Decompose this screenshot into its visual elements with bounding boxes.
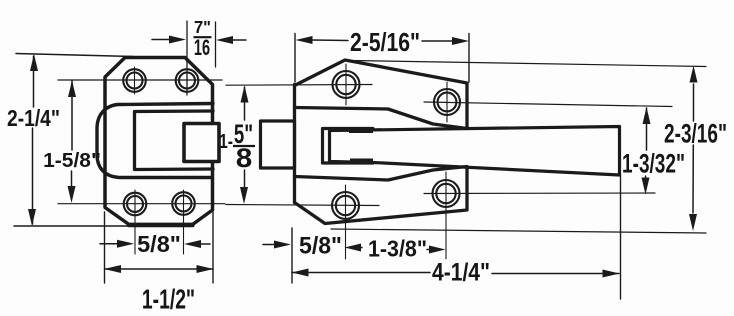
left body extension line (291, 228, 293, 283)
slot shadow bottom (350, 159, 373, 165)
dim 2-3/16 extension bottom (331, 229, 706, 233)
dim 2-1/4 extension bottom (14, 225, 127, 227)
dim 7/16 arrows (152, 36, 246, 45)
dim 1-5/8 line+arrows (68, 81, 77, 204)
dim 1-1/2 line+arrows (104, 265, 214, 273)
top flange (295, 60, 468, 129)
hole R-BL (332, 185, 359, 259)
dim 2-1/4 extension top (16, 54, 133, 57)
dim 2-3/16 extension top (352, 61, 706, 67)
slot shadow top (349, 127, 373, 133)
screw hole TR (176, 69, 199, 92)
dim 1-3/8 right arrow (427, 246, 446, 254)
svg-text:1-5/8": 1-5/8" (43, 149, 101, 171)
svg-text:8: 8 (236, 143, 253, 173)
plate bottom thick edge (129, 223, 193, 228)
hole R-BL centerline h (226, 205, 379, 206)
body left edge (293, 85, 296, 203)
svg-text:1-: 1- (219, 130, 233, 152)
dim 1-3/32 line+arrows (642, 107, 651, 195)
svg-text:2-3/16": 2-3/16" (664, 118, 727, 148)
hole R-TL (333, 64, 360, 105)
screw hole TL (123, 67, 146, 94)
dim 7/16 extension lines (186, 21, 188, 95)
svg-text:16: 16 (194, 35, 210, 60)
hole R-BR centerline h (424, 192, 655, 195)
svg-text:1-3/32": 1-3/32" (622, 148, 685, 178)
dim 1-1/2 extension lines (104, 212, 106, 283)
svg-text:4-1/4": 4-1/4" (432, 258, 490, 286)
svg-text:2-1/4": 2-1/4" (7, 106, 60, 131)
dim 1-5/8 (middle) line+arrows (240, 86, 249, 205)
screw hole BL (124, 190, 147, 254)
hole R-TR centerline h (424, 102, 672, 107)
dim 5/8 (right view) right arrow (345, 244, 363, 252)
latch case outer (97, 104, 213, 178)
svg-text:2-5/16": 2-5/16" (350, 29, 420, 58)
dim 2-1/4 line+arrows (28, 54, 38, 226)
svg-text:5/8": 5/8" (299, 232, 342, 259)
hole R-TR (434, 82, 460, 122)
dim 5/8 (right view) left arrow (263, 241, 291, 249)
svg-text:1-1/2": 1-1/2" (142, 284, 195, 315)
bolt (front) (184, 124, 219, 162)
hole R-TL centerline h (226, 84, 372, 87)
dim 2-5/16 extension lines (294, 34, 296, 83)
latch case inner opening (135, 111, 214, 170)
dim 2-5/16 arrows (296, 36, 470, 45)
screw hole BR (172, 190, 195, 254)
bolt (side) (261, 121, 295, 168)
dim 2-3/16 line+arrows (689, 66, 698, 232)
lever right extension line (620, 175, 622, 299)
plate outline (105, 58, 213, 225)
hole centerline bottom (58, 203, 225, 205)
hole R-BR (433, 172, 460, 259)
svg-text:1-3/8": 1-3/8" (368, 236, 427, 262)
dim 4-1/4 line+arrows (292, 269, 620, 278)
slot outline (323, 129, 374, 164)
lever handle (330, 127, 620, 176)
hole centerline top (58, 79, 222, 81)
dim 5/8 (left view) arrows (100, 240, 210, 248)
bottom flange (295, 167, 468, 224)
svg-text:5/8": 5/8" (137, 231, 181, 257)
